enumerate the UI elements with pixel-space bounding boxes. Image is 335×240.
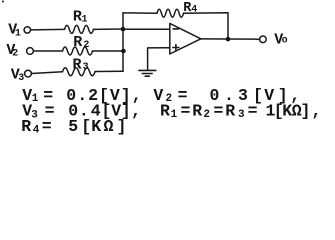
wire feedback top [123, 12, 157, 14]
svg-text:1: 1 [15, 29, 21, 40]
svg-text:R: R [192, 102, 202, 121]
ground [139, 70, 156, 76]
op-amp minus sign [173, 28, 178, 30]
svg-text:=: = [214, 102, 224, 121]
resistor R4 [157, 9, 184, 17]
svg-text:=: = [42, 117, 52, 136]
wire V2 to R2 [34, 50, 63, 52]
svg-text:]: ] [117, 117, 127, 136]
wire V3 to R3 [32, 72, 63, 74]
wire noninverting input to ground [148, 48, 170, 71]
svg-text:o: o [282, 36, 288, 47]
svg-text:2: 2 [12, 49, 18, 60]
svg-text:R: R [225, 102, 235, 121]
node V1 terminal [24, 27, 30, 33]
wire R3 to summing bus [95, 70, 123, 72]
svg-text:3: 3 [18, 73, 24, 84]
svg-text:2: 2 [203, 109, 210, 121]
svg-text:1: 1 [82, 14, 88, 25]
svg-text:3: 3 [31, 110, 38, 122]
svg-text:=: = [248, 102, 258, 121]
svg-text:1: 1 [32, 93, 39, 105]
wire op-amp output to Vo [201, 38, 260, 40]
svg-text:R: R [160, 102, 170, 121]
node Vo terminal [260, 36, 267, 43]
label V1 [8, 21, 21, 39]
wire bus to inverting input [123, 28, 170, 30]
svg-text:R: R [73, 56, 82, 73]
svg-text:3: 3 [238, 109, 245, 121]
svg-text:]: ] [301, 102, 311, 121]
resistor R3 [63, 68, 96, 76]
op-amp plus sign [173, 45, 179, 51]
wire R2 to summing bus [93, 50, 124, 52]
junction dot output [226, 37, 231, 42]
resistor R1 [65, 25, 94, 33]
svg-text:R: R [73, 34, 82, 51]
label R4 [183, 1, 197, 16]
svg-text:=: = [181, 102, 191, 121]
svg-text:,: , [131, 102, 141, 121]
svg-text:3: 3 [83, 62, 89, 73]
text line 1: V1 = 0.2[V], V2 = 0.3[V], [22, 86, 300, 105]
svg-text:,: , [312, 102, 322, 121]
junction dot bus R2 [121, 49, 126, 54]
resistor R2 [63, 47, 93, 55]
svg-text:2: 2 [83, 40, 89, 51]
stray dot top-left [2, 1, 4, 3]
svg-text:R: R [21, 117, 31, 136]
wire summing bus vertical [122, 13, 124, 71]
label V3 [11, 66, 24, 83]
label Vo [274, 32, 287, 49]
text line 2: V3 = 0.4[V], R1 = R2 = R3 = 1[KOhm], [22, 102, 321, 122]
svg-text:K: K [282, 102, 292, 121]
svg-text:1: 1 [171, 109, 178, 121]
svg-text:Ω: Ω [104, 117, 114, 136]
svg-text:4: 4 [33, 125, 40, 137]
junction dot bus R1 [121, 27, 126, 32]
wire V1 to R1 [31, 28, 65, 31]
svg-text:3: 3 [238, 86, 248, 105]
label R2 [73, 34, 89, 51]
svg-text:K: K [91, 117, 101, 136]
svg-text:[: [ [81, 117, 91, 136]
op-amp U1 [170, 23, 201, 54]
node V2 terminal [27, 48, 34, 55]
text line 3: R4 = 5[KOhm] [21, 117, 126, 136]
svg-text:4: 4 [191, 4, 197, 15]
wire R4 to output [184, 13, 229, 39]
label R1 [73, 9, 88, 26]
node V3 terminal [25, 70, 32, 77]
wire R1 to summing bus [94, 28, 124, 30]
label V2 [6, 42, 18, 59]
label R3 [73, 56, 89, 73]
svg-text:5: 5 [68, 117, 78, 136]
